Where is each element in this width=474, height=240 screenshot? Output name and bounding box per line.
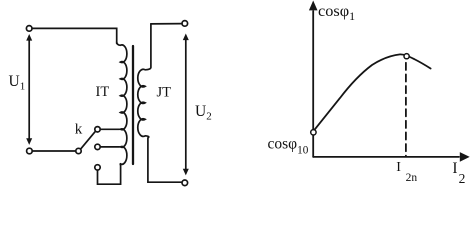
voltage arrow U1 <box>26 34 32 145</box>
graph y-axis (cos phi1 axis) <box>309 1 318 157</box>
label I2n <box>396 160 417 184</box>
svg-text:k: k <box>75 121 83 137</box>
node start point circle on y-axis <box>311 130 316 135</box>
switch k blade <box>81 131 96 149</box>
voltage arrow U2 <box>183 34 189 176</box>
node tap2 contact <box>95 144 100 149</box>
label JT <box>157 85 172 101</box>
svg-text:cosφ1: cosφ1 <box>318 1 355 23</box>
svg-text:I2: I2 <box>452 160 465 186</box>
label U1 <box>9 73 26 93</box>
terminal T2 (bottom-left input) <box>27 148 33 154</box>
terminal T1 (top-left input) <box>26 26 32 32</box>
svg-text:JT: JT <box>157 85 172 101</box>
wire (tap3 to IT winding bottom end) <box>98 164 121 184</box>
node tap1 contact <box>95 127 100 132</box>
wire (top lead from T1 to IT winding) <box>32 28 117 43</box>
label I2 <box>452 160 465 186</box>
node tap3 contact <box>95 165 100 170</box>
svg-text:U2: U2 <box>195 103 212 123</box>
graph x-axis (I2 axis) <box>313 152 470 162</box>
axis label cos phi 10 <box>268 136 309 157</box>
wire (tap2 to IT winding) <box>100 146 119 148</box>
wire (tap1 to IT winding) <box>100 128 119 130</box>
switch k pivot node <box>76 148 81 153</box>
label IT <box>96 84 110 100</box>
svg-text:I2n: I2n <box>396 160 417 184</box>
svg-text:U1: U1 <box>9 73 26 93</box>
transformer core <box>132 46 134 164</box>
terminal T4 (bottom-right output) <box>182 180 188 186</box>
axis label cos phi 1 <box>318 1 355 23</box>
label U2 <box>195 103 212 123</box>
wire (bottom lead from T2 to switch) <box>32 150 75 152</box>
winding IT (primary coil) <box>117 42 127 165</box>
terminal T3 (top-right output) <box>151 21 188 27</box>
svg-text:IT: IT <box>96 84 110 100</box>
svg-text:cosφ10: cosφ10 <box>268 136 309 157</box>
dashed line at I2n <box>405 63 407 156</box>
node rated point circle on curve <box>404 54 409 59</box>
label k <box>75 121 83 137</box>
winding JT (secondary coil) <box>138 24 182 182</box>
curve cos phi1 vs I2 <box>314 54 431 131</box>
